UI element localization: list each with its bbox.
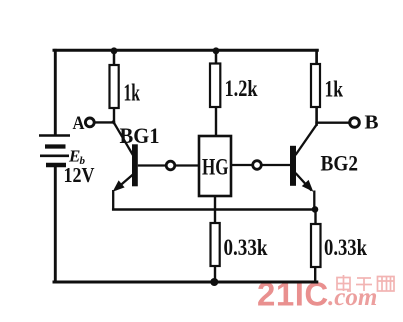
svg-text:HG: HG — [202, 155, 229, 181]
wire R3 bottom lead to node B — [315, 107, 318, 125]
svg-text:BG1: BG1 — [120, 123, 160, 148]
sounder HG body — [199, 136, 231, 196]
transistor BG1 base lead — [138, 164, 166, 166]
wire node A to terminal — [96, 121, 115, 123]
wire R1 bottom lead to node A — [113, 108, 115, 123]
wire emitter bus — [113, 208, 315, 211]
junction dot bottom rail — [210, 278, 218, 286]
wire node circle to HG left — [175, 164, 199, 166]
wire R1 top lead — [113, 50, 116, 65]
wire R2 top lead — [215, 50, 218, 63]
battery Eb plate short 2 — [46, 163, 66, 168]
wire left rail lower — [54, 165, 57, 282]
transistor BG2 base lead — [261, 164, 290, 166]
svg-text:12V: 12V — [64, 163, 95, 187]
wire HG bottom lead — [214, 196, 216, 223]
wire R5 top lead — [314, 210, 316, 225]
terminal B circle — [350, 118, 360, 128]
svg-text:B: B — [365, 112, 379, 134]
svg-text:.com: .com — [328, 284, 377, 311]
wire R2 bottom lead to HG — [215, 107, 217, 136]
wire bottom rail — [54, 281, 317, 284]
wire HG right to node circle — [231, 164, 253, 166]
wire R5 bottom lead — [314, 267, 316, 282]
resistor R2 1.2k body — [210, 64, 220, 108]
battery Eb plate long 1 — [39, 134, 70, 137]
transistor BG2 emitter arrow — [302, 180, 314, 192]
junction dot top rail left — [111, 47, 118, 54]
battery Eb plate short 1 — [45, 144, 66, 148]
transistor BG1 emitter arrow — [113, 180, 125, 191]
transistor BG1 collector lead — [113, 121, 134, 157]
transistor BG2 emitter lead — [296, 173, 312, 191]
resistor R5 0.33k body — [311, 224, 321, 267]
junction dot emitter bus right — [312, 206, 319, 213]
svg-text:A: A — [73, 114, 86, 134]
svg-text:1k: 1k — [325, 77, 344, 103]
svg-text:BG2: BG2 — [321, 151, 359, 176]
transistor BG2 collector lead — [296, 124, 317, 155]
resistor R3 1k body — [311, 64, 320, 107]
wire BG2 emitter drop — [313, 191, 315, 210]
resistor R1 1k body — [110, 65, 119, 108]
svg-text:1k: 1k — [124, 81, 141, 107]
battery Eb plate long 2 — [40, 155, 69, 158]
wire node B to terminal — [317, 121, 350, 123]
wire BG1 emitter drop — [112, 190, 114, 210]
node circle left of HG — [166, 161, 175, 170]
transistor BG2 base bar — [290, 146, 296, 186]
node circle right of HG — [253, 161, 262, 170]
terminal A circle — [85, 118, 94, 127]
svg-text:0.33k: 0.33k — [324, 235, 368, 261]
transistor BG1 emitter lead — [116, 174, 134, 190]
resistor R4 0.33k body — [211, 223, 220, 266]
svg-text:1.2k: 1.2k — [225, 76, 258, 101]
wire R4 bottom lead — [214, 266, 216, 282]
junction dot top rail middle — [213, 47, 220, 54]
watermark chinese 电子网 — [337, 275, 394, 291]
wire left rail upper — [54, 50, 57, 135]
wire R3 top lead — [315, 50, 318, 64]
transistor BG1 base bar — [132, 144, 138, 186]
svg-text:0.33k: 0.33k — [224, 235, 269, 261]
wire top rail — [54, 49, 317, 52]
